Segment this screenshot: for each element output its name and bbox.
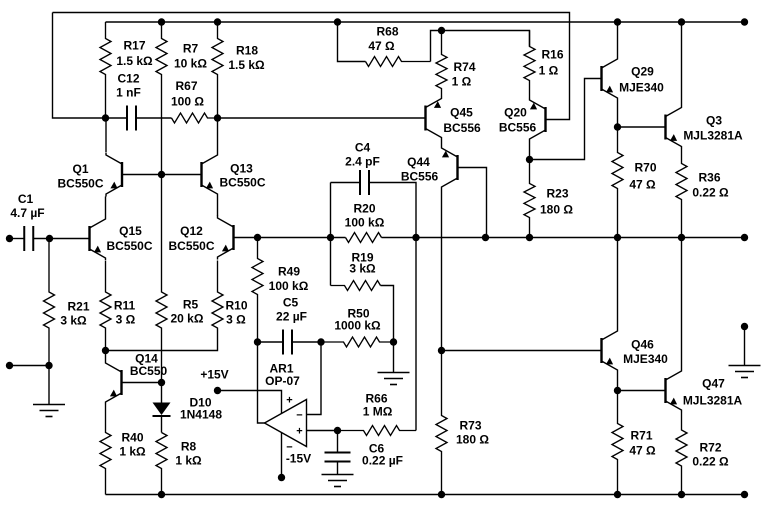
wire	[331, 182, 361, 184]
wire	[106, 117, 128, 119]
wire	[431, 31, 530, 62]
wire	[681, 22, 683, 105]
transistor Q44	[401, 146, 458, 190]
node junction	[158, 18, 165, 25]
wire	[458, 168, 487, 238]
capacitor C6	[325, 431, 403, 475]
output terminal	[741, 234, 748, 241]
node junction	[678, 18, 685, 25]
svg-text:0.22 Ω: 0.22 Ω	[692, 455, 729, 469]
svg-text:1 kΩ: 1 kΩ	[175, 454, 202, 468]
ground	[322, 475, 354, 487]
node junction	[526, 156, 533, 163]
node junction	[614, 491, 621, 498]
svg-text:R66: R66	[365, 392, 387, 406]
node junction	[102, 114, 109, 121]
svg-text:Q12: Q12	[180, 224, 203, 238]
svg-text:R67: R67	[175, 79, 197, 93]
svg-text:1.5 kΩ: 1.5 kΩ	[116, 54, 153, 68]
node junction	[614, 234, 621, 241]
resistor R23	[524, 160, 573, 238]
capacitor C1	[10, 192, 44, 251]
resistor R67	[171, 79, 217, 123]
node junction	[254, 338, 261, 345]
wire	[136, 117, 172, 119]
wire	[618, 126, 666, 128]
ground	[729, 366, 761, 378]
transistor Q1	[57, 153, 122, 197]
resistor R17	[100, 22, 153, 118]
wire	[10, 238, 25, 240]
svg-text:R36: R36	[698, 171, 720, 185]
input ground terminal	[6, 362, 13, 369]
node junction	[327, 234, 334, 241]
svg-text:+: +	[296, 426, 302, 438]
node junction	[214, 18, 221, 25]
transistor Q12	[168, 216, 233, 260]
node junction	[614, 123, 621, 130]
wire	[529, 142, 531, 160]
svg-text:MJL3281A: MJL3281A	[683, 394, 743, 408]
+15V supply terminal	[214, 387, 221, 394]
svg-text:R23: R23	[546, 187, 568, 201]
capacitor C4	[345, 141, 380, 195]
op-amp AR1	[265, 362, 307, 454]
resistor R70	[612, 127, 657, 238]
node junction	[614, 18, 621, 25]
svg-text:R49: R49	[278, 265, 300, 279]
wire	[617, 373, 619, 391]
svg-text:1000 kΩ: 1000 kΩ	[334, 319, 381, 333]
svg-text:BC550C: BC550C	[106, 239, 152, 253]
svg-text:C12: C12	[117, 72, 139, 86]
svg-text:C4: C4	[355, 141, 371, 155]
svg-text:100 Ω: 100 Ω	[171, 95, 204, 109]
resistor R72	[676, 413, 729, 495]
svg-text:180 Ω: 180 Ω	[456, 433, 489, 447]
svg-text:1 MΩ: 1 MΩ	[363, 405, 393, 419]
svg-text:R68: R68	[376, 25, 398, 39]
svg-text:BC550C: BC550C	[57, 177, 103, 191]
capacitor C12	[116, 72, 141, 131]
wire	[258, 341, 284, 343]
svg-text:3 Ω: 3 Ω	[116, 313, 136, 327]
svg-text:Q47: Q47	[702, 377, 725, 391]
svg-text:R7: R7	[183, 42, 199, 56]
svg-text:Q46: Q46	[631, 338, 654, 352]
resistor R36	[676, 149, 729, 238]
svg-text:BC556: BC556	[443, 121, 481, 135]
svg-text:MJL3281A: MJL3281A	[683, 129, 743, 143]
node junction	[334, 18, 341, 25]
wire	[105, 351, 107, 361]
resistor R50	[321, 307, 394, 347]
svg-text:Q13: Q13	[230, 162, 253, 176]
node junction	[214, 114, 221, 121]
svg-text:1 Ω: 1 Ω	[539, 64, 559, 78]
svg-text:BC550C: BC550C	[168, 239, 214, 253]
wire	[122, 382, 162, 384]
wire	[10, 365, 50, 367]
svg-text:BC550C: BC550C	[219, 176, 265, 190]
transistor Q13	[202, 153, 266, 197]
svg-text:1.5 kΩ: 1.5 kΩ	[228, 58, 265, 72]
svg-text:R8: R8	[181, 440, 197, 454]
node junction	[412, 234, 419, 241]
svg-text:2.4 pF: 2.4 pF	[345, 155, 380, 169]
node junction	[438, 347, 445, 354]
transistor Q20	[499, 98, 546, 142]
wire	[106, 21, 745, 23]
svg-text:22 µF: 22 µF	[276, 310, 307, 324]
svg-text:180 Ω: 180 Ω	[540, 203, 573, 217]
wire	[681, 238, 683, 369]
node junction	[526, 234, 533, 241]
svg-text:Q1: Q1	[72, 162, 88, 176]
node junction	[678, 491, 685, 498]
wire	[106, 329, 218, 351]
input terminal	[6, 235, 13, 242]
wire	[441, 140, 443, 146]
transistor Q14	[106, 352, 168, 405]
wire	[381, 286, 394, 343]
wire	[617, 101, 619, 128]
svg-text:Q3: Q3	[706, 114, 722, 128]
resistor R68	[366, 25, 431, 67]
ground terminal	[741, 323, 748, 330]
wire	[307, 342, 322, 415]
node junction	[614, 387, 621, 394]
transistor Q47	[666, 369, 743, 413]
node junction	[438, 27, 445, 34]
svg-text:1N4148: 1N4148	[180, 408, 222, 422]
transistor Q3	[666, 105, 744, 149]
diode D10	[153, 383, 223, 433]
resistor R74	[436, 31, 476, 97]
-15V supply terminal	[278, 474, 285, 481]
resistor R8	[156, 433, 202, 495]
wire	[441, 190, 443, 351]
wire	[617, 238, 619, 329]
resistor R19	[331, 251, 381, 291]
svg-text:R71: R71	[630, 429, 652, 443]
wire	[442, 350, 602, 352]
wire	[218, 391, 282, 414]
svg-text:Q29: Q29	[631, 65, 654, 79]
wire	[218, 117, 426, 119]
wire	[307, 430, 338, 432]
node junction	[158, 491, 165, 498]
svg-text:0.22 µF: 0.22 µF	[362, 454, 403, 468]
svg-text:10 kΩ: 10 kΩ	[174, 57, 207, 71]
resistor R71	[612, 391, 656, 495]
svg-text:BC556: BC556	[499, 121, 537, 135]
wire	[217, 118, 219, 153]
wire	[744, 327, 746, 366]
wire	[258, 342, 265, 423]
svg-text:R70: R70	[634, 161, 656, 175]
svg-text:1 kΩ: 1 kΩ	[119, 445, 146, 459]
svg-text:BC556: BC556	[401, 170, 439, 184]
svg-text:R73: R73	[459, 419, 481, 433]
svg-text:Q20: Q20	[504, 106, 527, 120]
svg-text:100 kΩ: 100 kΩ	[345, 216, 385, 230]
svg-text:R72: R72	[699, 441, 721, 455]
capacitor C5	[276, 296, 307, 355]
wire	[330, 183, 332, 286]
svg-text:47 Ω: 47 Ω	[629, 178, 656, 192]
svg-text:R18: R18	[236, 44, 258, 58]
wire	[105, 197, 107, 217]
wire	[617, 22, 619, 57]
svg-text:R17: R17	[123, 39, 145, 53]
svg-text:MJE340: MJE340	[619, 81, 664, 95]
node junction	[482, 234, 489, 241]
svg-text:C5: C5	[283, 296, 299, 310]
resistor R11	[100, 261, 136, 351]
wire	[217, 197, 219, 217]
svg-text:R20: R20	[353, 202, 375, 216]
wire	[338, 22, 366, 62]
ground	[33, 405, 65, 417]
svg-text:R16: R16	[541, 48, 563, 62]
svg-text:C1: C1	[18, 192, 34, 206]
svg-text:-15V: -15V	[286, 452, 311, 466]
svg-text:R21: R21	[67, 300, 89, 314]
svg-text:20 kΩ: 20 kΩ	[171, 312, 204, 326]
svg-text:R74: R74	[453, 60, 475, 74]
transistor Q45	[426, 96, 482, 140]
V- rail terminal	[741, 491, 748, 498]
svg-text:−: −	[296, 410, 302, 422]
svg-text:Q45: Q45	[450, 106, 473, 120]
svg-text:47 Ω: 47 Ω	[368, 39, 395, 53]
node junction	[390, 338, 397, 345]
node junction	[45, 362, 52, 369]
resistor R66	[338, 392, 417, 436]
wire	[393, 342, 395, 373]
wire	[122, 174, 202, 176]
svg-text:3 kΩ: 3 kΩ	[349, 262, 376, 276]
svg-text:R11: R11	[114, 299, 136, 313]
wire	[234, 237, 346, 239]
svg-text:OP-07: OP-07	[265, 374, 300, 388]
wire	[53, 13, 570, 120]
wire	[53, 13, 106, 119]
svg-text:+: +	[286, 395, 292, 407]
resistor R49	[252, 238, 309, 343]
resistor R21	[44, 239, 90, 366]
node junction	[438, 491, 445, 498]
transistor Q46	[602, 329, 669, 373]
wire	[33, 238, 90, 240]
svg-text:+15V: +15V	[200, 368, 228, 382]
wire	[105, 118, 107, 152]
node junction	[254, 234, 261, 241]
resistor R73	[436, 351, 489, 495]
svg-text:4.7 µF: 4.7 µF	[10, 206, 44, 220]
wire	[281, 433, 283, 478]
node junction	[158, 171, 165, 178]
resistor R10	[212, 261, 248, 329]
svg-text:Q44: Q44	[407, 155, 430, 169]
resistor R16	[524, 31, 564, 98]
resistor R5	[156, 175, 204, 383]
svg-text:MJE340: MJE340	[623, 352, 668, 366]
svg-text:47 Ω: 47 Ω	[629, 444, 656, 458]
wire	[369, 183, 416, 431]
svg-text:100 kΩ: 100 kΩ	[269, 279, 309, 293]
node junction	[158, 379, 165, 386]
node junction	[334, 427, 341, 434]
svg-text:3 Ω: 3 Ω	[226, 313, 246, 327]
wire	[382, 237, 745, 239]
svg-text:1 Ω: 1 Ω	[452, 75, 472, 89]
node junction	[678, 234, 685, 241]
node junction	[102, 347, 109, 354]
wire	[292, 341, 321, 343]
node junction	[46, 235, 53, 242]
svg-text:R40: R40	[121, 431, 143, 445]
wire	[618, 390, 666, 392]
transistor Q15	[90, 217, 153, 261]
resistor R18	[212, 22, 265, 118]
svg-text:0.22 Ω: 0.22 Ω	[692, 186, 729, 200]
resistor R7	[156, 22, 207, 175]
node junction	[317, 338, 324, 345]
svg-text:1 nF: 1 nF	[116, 86, 141, 100]
V+ rail terminal	[741, 18, 748, 25]
svg-text:R10: R10	[225, 299, 247, 313]
svg-text:Q15: Q15	[119, 224, 142, 238]
resistor R40	[100, 405, 146, 495]
ground	[378, 373, 410, 385]
wire	[530, 79, 602, 160]
wire	[106, 494, 745, 496]
transistor Q29	[602, 57, 665, 101]
resistor R20	[345, 202, 385, 243]
svg-text:3 kΩ: 3 kΩ	[60, 314, 87, 328]
svg-text:R5: R5	[183, 298, 199, 312]
wire	[48, 366, 50, 405]
